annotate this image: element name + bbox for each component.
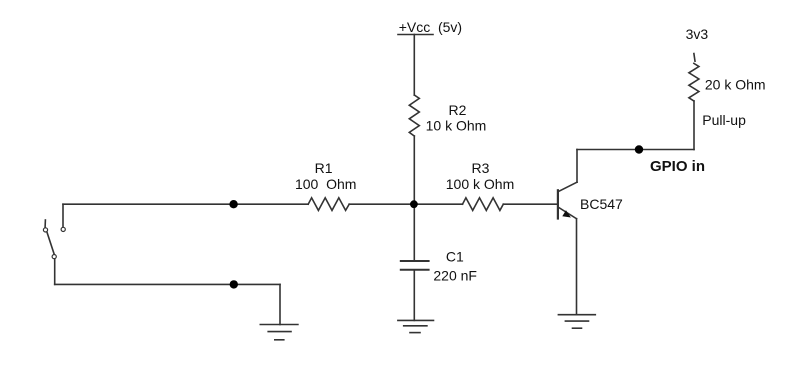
transistor Q1 collector diagonal: [559, 182, 577, 191]
resistor Rpullup 20k: [689, 63, 699, 101]
svg-text:(5v): (5v): [438, 19, 462, 35]
wire R1 to node: [349, 203, 462, 205]
wire collector top horizontal to pull-up: [577, 149, 694, 151]
wire main horizontal left: [63, 203, 308, 205]
svg-text:R3: R3: [472, 160, 490, 176]
switch S1 lever: [47, 232, 54, 254]
capacitor C1: [401, 261, 429, 270]
wire bottom return corner down: [279, 284, 281, 324]
wire collector vertical: [576, 150, 578, 183]
svg-text:BC547: BC547: [580, 196, 623, 212]
wire switch pivot down: [54, 259, 56, 284]
svg-text:Pull-up: Pull-up: [702, 112, 746, 128]
ground under transistor: [558, 315, 595, 329]
svg-text:100 k Ohm: 100 k Ohm: [446, 176, 514, 192]
switch S1 pivot circle: [52, 255, 56, 259]
ground bottom-left: [260, 325, 298, 340]
wire C1 to ground: [413, 270, 415, 321]
wire switch top vertical: [62, 204, 64, 227]
junction dot node A (switch / R1): [229, 200, 237, 208]
svg-text:+Vcc: +Vcc: [399, 19, 431, 35]
junction dot bottom return: [230, 280, 238, 288]
svg-text:C1: C1: [446, 249, 464, 265]
resistor R2: [409, 95, 419, 136]
svg-text:20 k Ohm: 20 k Ohm: [705, 77, 766, 93]
wire 3v3 stub: [694, 54, 695, 62]
transistor Q1 emitter diagonal: [559, 208, 577, 219]
power rail +Vcc bar: [398, 34, 433, 36]
junction dot node B (centre): [410, 200, 418, 208]
svg-text:R2: R2: [449, 102, 467, 118]
svg-text:R1: R1: [315, 160, 333, 176]
svg-text:100 Ohm: 100 Ohm: [295, 176, 356, 192]
switch S1 lever overshoot stub: [44, 220, 46, 227]
svg-text:GPIO in: GPIO in: [650, 158, 705, 175]
resistor R1: [308, 198, 349, 211]
transistor Q1 emitter arrow: [562, 210, 571, 217]
wire node to C1: [413, 204, 415, 261]
junction dot GPIO node: [635, 145, 643, 153]
transistor Q1 base bar: [557, 190, 559, 218]
wire emitter to ground: [576, 219, 578, 315]
wire R3 to transistor base: [503, 203, 557, 205]
wire R2 to node: [413, 136, 415, 204]
svg-text:3v3: 3v3: [686, 26, 709, 42]
wire Vcc to R2: [413, 35, 415, 96]
switch S1 contact circle left: [43, 228, 47, 232]
switch S1 contact circle right: [61, 227, 65, 231]
resistor R3: [463, 198, 504, 211]
wire pull-up to GPIO node: [693, 101, 695, 150]
svg-text:220 nF: 220 nF: [433, 267, 477, 283]
svg-text:10 k Ohm: 10 k Ohm: [426, 117, 487, 133]
ground under C1: [398, 320, 434, 332]
wire bottom return horizontal: [55, 283, 280, 285]
